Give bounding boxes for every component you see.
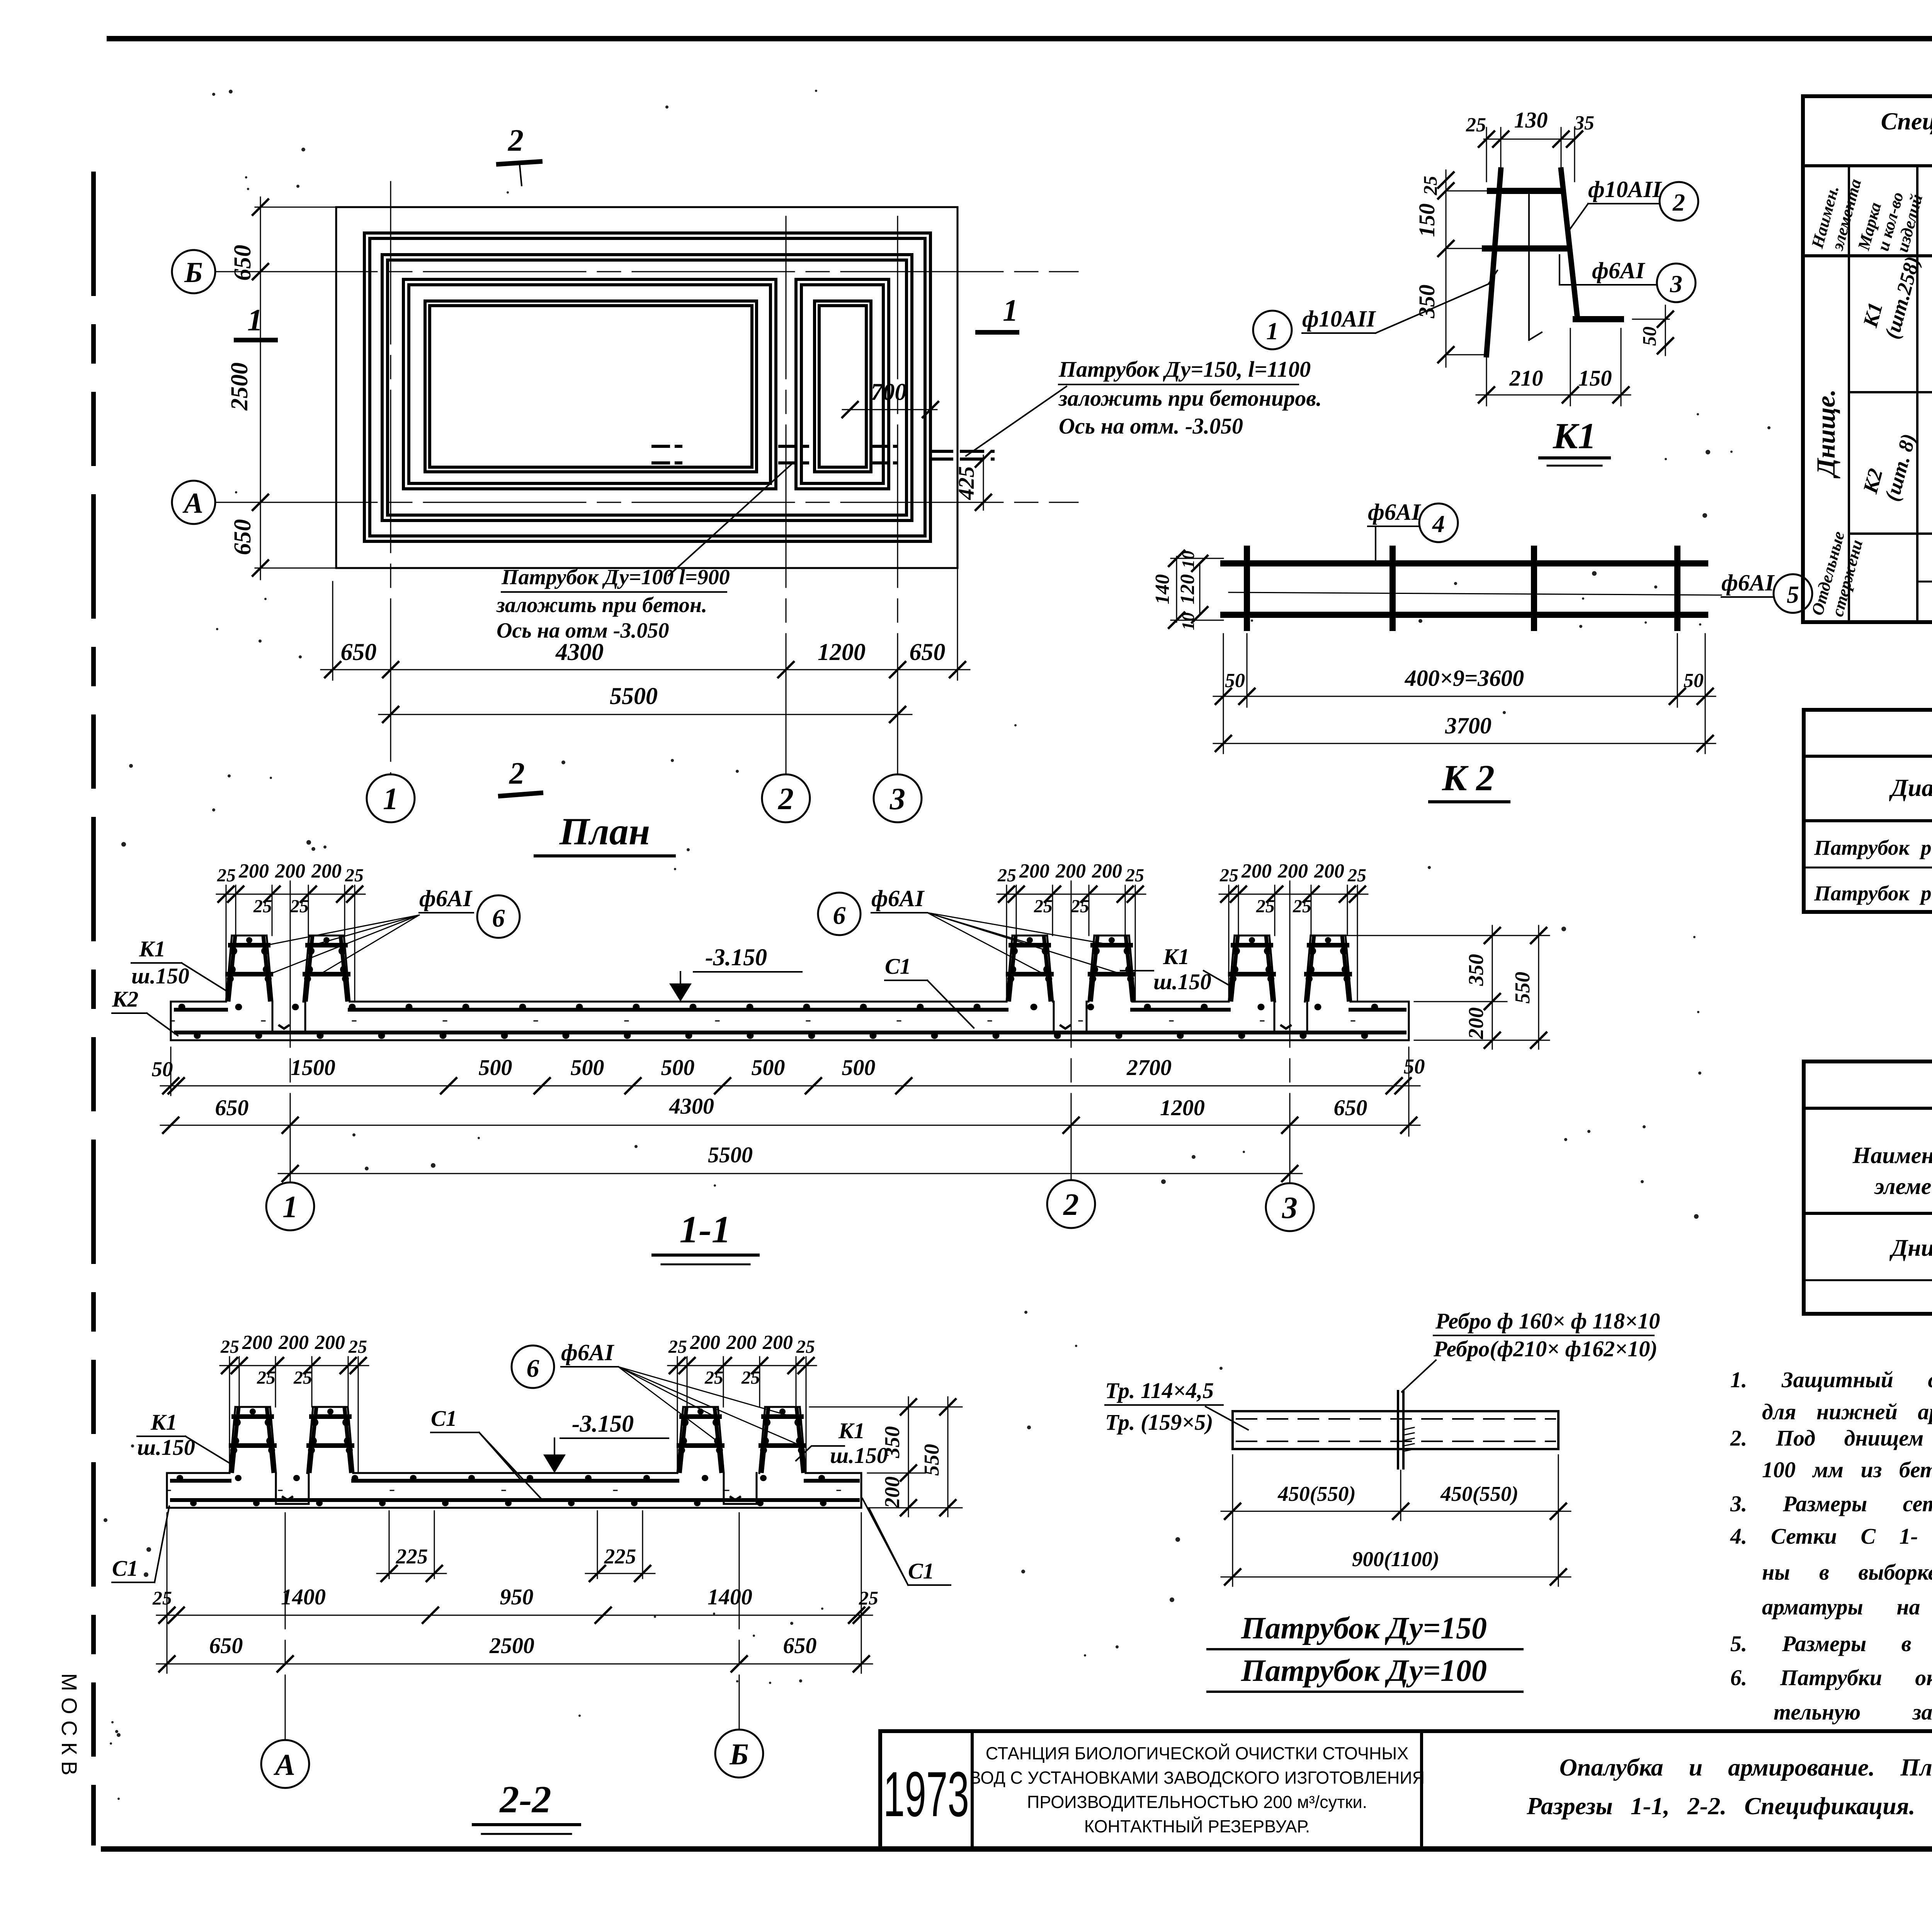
svg-text:-3.150: -3.150 (572, 1411, 634, 1437)
K2 vertical bar 2 (1389, 549, 1396, 628)
leader fan right (927, 913, 1121, 974)
leader to pipe 150 (966, 386, 1066, 456)
svg-text:Наименование: Наименование (1852, 1143, 1932, 1168)
svg-text:1200: 1200 (818, 639, 866, 665)
svg-text:50: 50 (1404, 1055, 1425, 1078)
svg-text:25: 25 (1466, 114, 1486, 136)
svg-text:2500: 2500 (489, 1633, 534, 1658)
svg-text:А: А (182, 487, 203, 519)
spec vertical lines (1848, 166, 1850, 622)
svg-text:ПРОИЗВОДИТЕЛЬНОСТЬЮ 200 м³/су: ПРОИЗВОДИТЕЛЬНОСТЬЮ 200 м³/сутки. (1027, 1792, 1367, 1812)
K2 left dim lines (1176, 556, 1177, 622)
svg-text:3: 3 (1670, 270, 1682, 298)
slab rebar dots bottom (197, 1032, 1403, 1039)
svg-text:425: 425 (954, 466, 979, 500)
svg-text:500: 500 (571, 1055, 604, 1080)
K1 left dimension line (1446, 170, 1447, 367)
dimension row 1 (2-2) (167, 1513, 168, 1673)
svg-text:210: 210 (1509, 366, 1543, 391)
leader from label 4 (1375, 526, 1376, 563)
svg-text:130: 130 (1514, 107, 1548, 133)
K1 bottom dimension line (1486, 355, 1487, 406)
svg-text:К1: К1 (1163, 944, 1189, 969)
svg-text:350: 350 (1414, 285, 1439, 319)
dimension row 2 (2-2) (156, 1664, 872, 1665)
plan bottom dimension line 1 (332, 582, 333, 680)
svg-text:Патрубок Ду=150: Патрубок Ду=150 (1241, 1611, 1487, 1645)
plan right chamber wall inner face (815, 301, 871, 472)
svg-text:элемента: элемента (1874, 1174, 1932, 1199)
leader from label 1 to left leg (1376, 284, 1488, 333)
svg-text:ф6АI: ф6АI (871, 886, 925, 911)
svg-text:-3.150: -3.150 (705, 944, 767, 971)
svg-text:1973: 1973 (883, 1759, 969, 1830)
svg-text:Патрубок Ду=100 l=900: Патрубок Ду=100 l=900 (501, 565, 730, 589)
svg-text:400×9=3600: 400×9=3600 (1405, 665, 1524, 691)
svg-text:650: 650 (1334, 1095, 1367, 1120)
K1 top dimension line (1484, 139, 1575, 140)
section mark 2 bottom (500, 793, 541, 796)
svg-text:3: 3 (1282, 1191, 1298, 1225)
svg-text:200: 200 (880, 1476, 904, 1509)
svg-text:100 мм из бетона марки -50: 100 мм из бетона марки -50 (1762, 1457, 1932, 1482)
label f6AI callout 6 right (818, 893, 861, 935)
section mark 1 left (236, 338, 276, 342)
svg-text:50: 50 (1638, 327, 1660, 346)
plan bottom dimension line 2 (379, 714, 912, 715)
K1 right leg (1561, 170, 1577, 317)
svg-text:25: 25 (1419, 176, 1441, 196)
axis circle A (2-2) (261, 1740, 309, 1788)
slab top rebar 2-2 (172, 1479, 858, 1483)
svg-text:Патрубок ребристый Ду=100; l: Патрубок ребристый Ду=100; l= 900 (1814, 836, 1932, 859)
svg-text:1: 1 (383, 782, 398, 816)
svg-text:Днище: Днище (1889, 1235, 1932, 1261)
callout circle 5 (1774, 574, 1812, 613)
section 1-1 dimension row 3 (278, 1173, 1302, 1174)
section 1-1 axis lines (290, 881, 291, 1182)
title block top line (880, 1729, 1932, 1733)
svg-text:650: 650 (230, 245, 256, 281)
svg-text:Б: Б (184, 257, 203, 289)
svg-text:6. Патрубки окрасить анти: 6. Патрубки окрасить антикоррозийным сос… (1730, 1665, 1932, 1690)
svg-text:КОНТАКТНЫЙ РЕЗЕРВУАР.: КОНТАКТНЫЙ РЕЗЕРВУАР. (1084, 1817, 1310, 1836)
svg-text:350: 350 (1464, 954, 1488, 987)
svg-text:ш.150: ш.150 (131, 963, 189, 988)
svg-text:ф6АI: ф6АI (561, 1340, 615, 1365)
svg-text:К1: К1 (150, 1410, 177, 1435)
plan left chamber wall inner face (425, 301, 757, 472)
svg-text:450(550): 450(550) (1277, 1482, 1356, 1505)
svg-text:1. Защитный слой бетона: 1. Защитный слой бетона для верхней арма… (1730, 1367, 1932, 1392)
section 1-1 axis circle 2 (1047, 1180, 1095, 1228)
svg-text:Тр. 114×4,5: Тр. 114×4,5 (1105, 1378, 1214, 1403)
axis 3 vertical (897, 216, 898, 774)
svg-text:650: 650 (910, 639, 946, 665)
section mark 1 right (978, 330, 1017, 335)
rib pair 1 (226, 936, 272, 1002)
leader to pipe (1206, 1407, 1248, 1430)
pipe table outer frame (1804, 710, 1932, 912)
svg-text:140: 140 (1151, 574, 1173, 604)
axis circle 2 (762, 774, 810, 822)
svg-text:450(550): 450(550) (1440, 1482, 1519, 1505)
svg-text:120: 120 (1177, 574, 1199, 604)
slab outline section 1-1 (171, 1001, 1409, 1003)
svg-text:5500: 5500 (610, 683, 658, 709)
title block verticals (878, 1731, 882, 1849)
svg-text:1: 1 (282, 1190, 298, 1224)
svg-text:150: 150 (1578, 366, 1612, 391)
plan outer wall outer face (364, 233, 930, 541)
svg-text:Ребро(ф210× ф162×10): Ребро(ф210× ф162×10) (1433, 1336, 1658, 1361)
svg-text:500: 500 (842, 1055, 876, 1080)
spec table outer frame (1803, 96, 1932, 622)
svg-text:5: 5 (1787, 581, 1799, 608)
svg-text:50: 50 (152, 1057, 173, 1081)
section mark 2 top (498, 162, 540, 164)
svg-text:50: 50 (1225, 670, 1245, 692)
svg-text:3. Размеры сеток даны по: 3. Размеры сеток даны по осям крайних ст… (1730, 1491, 1932, 1516)
svg-text:Тр. (159×5): Тр. (159×5) (1105, 1410, 1213, 1435)
svg-text:25: 25 (859, 1587, 878, 1609)
svg-text:Патрубок ребристый Ду=150; l: Патрубок ребристый Ду=150; l=1100 (1814, 881, 1932, 905)
svg-text:3: 3 (889, 782, 905, 816)
slab mesh ticks 2-2 (167, 1490, 861, 1491)
svg-text:ш.150: ш.150 (1153, 969, 1211, 994)
pipe rib plate (1397, 1391, 1399, 1468)
dim 425 (983, 455, 984, 510)
section 1-1 axis circle 1 (266, 1182, 314, 1230)
svg-text:МОСКВ: МОСКВ (57, 1673, 82, 1782)
svg-text:2500: 2500 (226, 362, 253, 411)
svg-text:1200: 1200 (1160, 1095, 1205, 1120)
K2 bottom dimension line 1 (1223, 634, 1224, 754)
svg-text:4300: 4300 (555, 639, 604, 665)
svg-text:для нижней арматуры -35м: для нижней арматуры -35мм. (1762, 1399, 1932, 1424)
svg-text:650: 650 (783, 1633, 817, 1658)
svg-text:ф6АI: ф6АI (1721, 570, 1775, 595)
K2 vertical bar 4 (1674, 549, 1680, 628)
svg-text:650: 650 (209, 1633, 243, 1658)
pipe body (1233, 1411, 1558, 1449)
svg-text:650: 650 (230, 519, 256, 555)
leader fan left (267, 915, 419, 974)
svg-text:2: 2 (508, 124, 524, 158)
svg-text:Патрубок Ду=150, l=1100: Патрубок Ду=150, l=1100 (1058, 357, 1311, 382)
svg-text:тельную записку.): тельную записку.) (1774, 1699, 1932, 1725)
svg-text:5500: 5500 (708, 1142, 753, 1167)
slab mesh vertical ticks (171, 1021, 1409, 1022)
svg-text:С1: С1 (431, 1406, 457, 1431)
svg-text:6: 6 (527, 1354, 539, 1383)
section 1-1 right vertical dims (1345, 935, 1549, 936)
svg-text:Патрубок Ду=100: Патрубок Ду=100 (1241, 1654, 1487, 1688)
svg-text:650: 650 (341, 639, 377, 665)
svg-text:550: 550 (920, 1444, 943, 1476)
svg-text:А: А (273, 1748, 295, 1781)
axis lines (2-2) (285, 1513, 286, 1739)
rib pair 3 (1229, 936, 1275, 1002)
svg-text:35: 35 (1574, 112, 1594, 134)
svg-text:К1: К1 (1553, 415, 1596, 456)
axis circle 3 (874, 774, 922, 822)
svg-text:Разрезы 1-1, 2-2. Спецификац: Разрезы 1-1, 2-2. Спецификация. Выборки. (1526, 1792, 1932, 1820)
plan outer wall inner face (382, 255, 912, 520)
pipe mark middle wall (871, 445, 896, 448)
svg-text:6: 6 (492, 904, 505, 932)
plan left chamber wall outer face (403, 279, 776, 489)
rib pair 2 (2-2) (677, 1407, 724, 1473)
svg-text:225: 225 (396, 1544, 428, 1568)
dim 225 pair (2-2) (389, 1511, 390, 1579)
leader from label 2 to right leg (1568, 204, 1588, 232)
spec column header bottom (1803, 254, 1932, 257)
K1 left leg (1486, 170, 1501, 355)
svg-text:1400: 1400 (707, 1584, 752, 1609)
callout circle 3 (1657, 264, 1696, 302)
rib pair 1 (2-2) (230, 1407, 276, 1473)
leader to pipe 100 (668, 464, 792, 576)
pipe mark in wall left (653, 445, 681, 448)
svg-text:К2: К2 (112, 987, 138, 1012)
svg-text:Ось на отм. -3.050: Ось на отм. -3.050 (1059, 413, 1243, 439)
rib pair 2 (1007, 936, 1053, 1002)
svg-text:4: 4 (1432, 510, 1445, 538)
svg-text:550: 550 (1510, 972, 1534, 1004)
svg-text:3700: 3700 (1445, 713, 1492, 738)
pipe inner dashed lines (1236, 1418, 1555, 1420)
slab rebar dots top (182, 1004, 1403, 1010)
spec table header divider (1803, 164, 1932, 167)
pipe dimension row 1 (1232, 1455, 1233, 1586)
svg-text:ф10АII: ф10АII (1588, 177, 1662, 202)
axis 2 vertical (786, 216, 787, 774)
svg-text:ф6АI: ф6АI (419, 886, 473, 911)
K1 center thin line (1528, 191, 1530, 340)
svg-text:СТАНЦИЯ БИОЛОГИЧЕСКОЙ ОЧИСТКИ: СТАНЦИЯ БИОЛОГИЧЕСКОЙ ОЧИСТКИ СТОЧНЫХ (986, 1744, 1409, 1763)
svg-text:2: 2 (1063, 1188, 1079, 1222)
svg-text:650: 650 (215, 1095, 249, 1120)
leader to rib plate (1402, 1360, 1436, 1392)
right vertical dims (2-2) (810, 1407, 962, 1408)
svg-text:К 2: К 2 (1442, 757, 1495, 798)
section 1-1 dimension row 2 (160, 1125, 1420, 1126)
pipe table row divider (1804, 867, 1932, 869)
section 1-1 axis circle 3 (1266, 1183, 1314, 1231)
svg-text:10: 10 (1178, 551, 1198, 568)
materials table outer frame (1804, 1061, 1932, 1314)
dim 700 (842, 409, 937, 410)
pipe stub right dashed (930, 450, 993, 453)
bottom border line (104, 1846, 1932, 1852)
svg-text:2: 2 (509, 757, 525, 791)
axis circle B (2-2) (715, 1730, 763, 1778)
plan right chamber wall outer face (796, 279, 889, 489)
label f6AI callout 6 (2-2) (512, 1345, 554, 1388)
svg-text:1-1: 1-1 (679, 1208, 731, 1251)
svg-text:К1: К1 (838, 1418, 865, 1443)
svg-text:1500: 1500 (291, 1055, 335, 1080)
slab top rebar (176, 1008, 1405, 1012)
K2 top bar (1223, 560, 1705, 566)
pipe table header row bottom (1804, 819, 1932, 822)
slab outline section 2-2 (167, 1472, 861, 1474)
axis A horizontal (215, 502, 1078, 503)
svg-text:50: 50 (1684, 670, 1704, 692)
K1 foot bar (1576, 316, 1621, 322)
svg-text:225: 225 (604, 1544, 636, 1568)
svg-text:Б: Б (729, 1737, 749, 1771)
materials data row bottom (1804, 1279, 1932, 1281)
svg-text:Днище.: Днище. (1811, 389, 1840, 479)
svg-text:ф6АI: ф6АI (1592, 258, 1646, 283)
K1 middle bar (1485, 245, 1569, 252)
svg-text:ш.150: ш.150 (137, 1435, 195, 1460)
svg-text:5. Размеры в скобках даны: 5. Размеры в скобках даны для патрубка Д… (1730, 1631, 1932, 1656)
K2 bottom bar (1223, 612, 1705, 618)
pipe dimension row 2 (1221, 1577, 1571, 1578)
K2 vertical bar 1 (1244, 549, 1250, 628)
svg-text:25: 25 (152, 1587, 172, 1609)
callout circle 4 (1419, 503, 1458, 542)
svg-text:2: 2 (1672, 189, 1685, 216)
svg-text:С1: С1 (885, 954, 911, 979)
svg-text:200: 200 (1464, 1007, 1488, 1040)
svg-text:План: План (559, 810, 650, 853)
svg-text:2700: 2700 (1126, 1055, 1172, 1080)
pipe mark in wall right (780, 445, 808, 448)
svg-text:500: 500 (661, 1055, 695, 1080)
plan slab outer edge (336, 207, 957, 568)
svg-text:500: 500 (479, 1055, 512, 1080)
svg-text:ф10АII: ф10АII (1302, 306, 1376, 332)
axis B horizontal (215, 271, 1078, 272)
axis circle B (172, 250, 215, 293)
svg-text:6: 6 (833, 902, 846, 930)
svg-text:заложить при бетон.: заложить при бетон. (496, 593, 707, 617)
slab bottom rebar (176, 1031, 1405, 1034)
slab bottom rebar 2-2 (172, 1498, 858, 1502)
plan left dimension line (260, 197, 261, 580)
svg-text:700: 700 (871, 379, 907, 405)
top border line (109, 36, 1932, 41)
svg-text:350: 350 (880, 1426, 904, 1459)
left border dashed line (91, 174, 96, 1843)
svg-text:2. Под днищем устраивается: 2. Под днищем устраивается бетонная подг… (1730, 1425, 1932, 1451)
dim 50 right (1633, 319, 1669, 320)
svg-text:4. Сетки С 1- сварные по Г: 4. Сетки С 1- сварные по ГОСТу 8478-66 м… (1730, 1524, 1932, 1549)
K2 vertical bar 3 (1531, 549, 1537, 628)
svg-text:Диаметр патрубка: Диаметр патрубка (1889, 774, 1932, 801)
svg-text:Ребро ф 160× ф 118×10: Ребро ф 160× ф 118×10 (1435, 1308, 1660, 1334)
svg-text:К1: К1 (139, 936, 165, 961)
axis circle 1 (367, 774, 415, 822)
section 1-1 dimension row 1 (170, 1047, 172, 1095)
svg-text:С1: С1 (908, 1558, 934, 1584)
leader fan (2-2) (618, 1367, 800, 1445)
svg-text:ф6АI: ф6АI (1368, 499, 1422, 525)
materials header bottom (1804, 1212, 1932, 1215)
svg-text:заложить при бетониров.: заложить при бетониров. (1058, 386, 1322, 411)
svg-text:арматуры на листе КС-25: арматуры на листе КС-25 (1762, 1594, 1932, 1619)
leader from label 3 (1560, 284, 1592, 286)
svg-text:ВОД С УСТАНОВКАМИ ЗАВОДСКОГО И: ВОД С УСТАНОВКАМИ ЗАВОДСКОГО ИЗГОТОВЛЕНИ… (969, 1768, 1425, 1788)
axis circle A (172, 481, 215, 524)
K1 top bar (1490, 188, 1562, 194)
K2 bottom dimension line 2 (1213, 743, 1716, 744)
svg-text:1400: 1400 (281, 1584, 326, 1609)
leader from label 5 (1229, 592, 1721, 595)
axis 1 vertical (390, 182, 391, 774)
svg-text:ны в выборке материалов н: ны в выборке материалов на данном листе … (1762, 1560, 1932, 1585)
svg-text:900(1100): 900(1100) (1352, 1547, 1439, 1571)
svg-text:Ось на отм -3.050: Ось на отм -3.050 (497, 619, 669, 643)
callout circle 1 (1253, 311, 1292, 349)
svg-text:4300: 4300 (669, 1094, 714, 1119)
svg-text:500: 500 (752, 1055, 785, 1080)
svg-text:150: 150 (1414, 204, 1439, 237)
svg-text:2-2: 2-2 (499, 1778, 551, 1821)
plan left dimension extension lines (255, 207, 336, 208)
svg-text:1: 1 (1003, 294, 1018, 328)
slab rebar dots 2-2 (180, 1475, 856, 1481)
scan noise speckles (665, 105, 668, 109)
svg-text:1: 1 (1266, 317, 1279, 345)
svg-text:Опалубка и армирование. Пла: Опалубка и армирование. План. (1560, 1754, 1932, 1781)
svg-text:С1: С1 (112, 1556, 138, 1581)
svg-text:2: 2 (778, 782, 794, 816)
svg-text:950: 950 (500, 1584, 534, 1609)
callout circle 2 (1660, 182, 1698, 221)
svg-text:10: 10 (1178, 612, 1198, 630)
svg-text:Спецификация арматуры на: Спецификация арматуры на один (1881, 107, 1932, 135)
